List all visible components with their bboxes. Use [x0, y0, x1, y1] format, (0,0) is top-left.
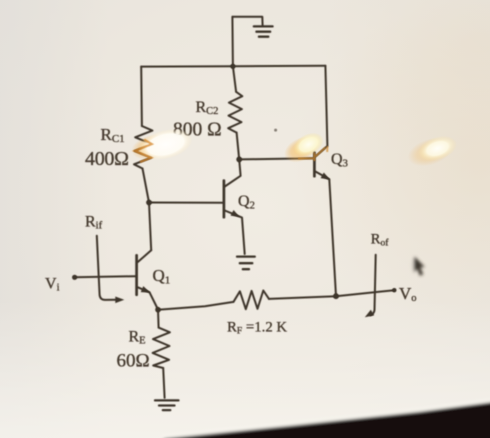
- svg-text:RF =1.2 K: RF =1.2 K: [227, 320, 287, 337]
- svg-text:60Ω: 60Ω: [117, 350, 150, 371]
- svg-text:400Ω: 400Ω: [85, 148, 129, 170]
